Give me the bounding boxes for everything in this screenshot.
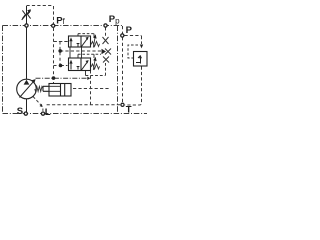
svg-text:Pp: Pp [109, 14, 120, 26]
svg-text:P: P [126, 25, 133, 36]
svg-text:L: L [45, 107, 51, 118]
svg-text:Pf: Pf [56, 15, 65, 26]
svg-text:S: S [17, 106, 23, 117]
svg-text:T: T [126, 104, 132, 115]
